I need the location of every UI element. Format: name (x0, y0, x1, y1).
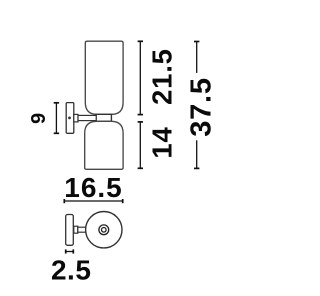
wall mount plate (top view) (66, 215, 74, 246)
inner ring outer (99, 225, 109, 235)
upper diffuser shade (85, 41, 123, 114)
svg-text:16.5: 16.5 (64, 172, 123, 203)
dimension line 37.5 lower segment (194, 140, 199, 168)
svg-text:2.5: 2.5 (51, 255, 91, 286)
shade circle (top view) (86, 212, 122, 248)
dimension line 37.5 upper segment (194, 42, 199, 73)
svg-text:9: 9 (28, 113, 50, 124)
svg-text:14: 14 (147, 126, 178, 158)
dimension line 9 (54, 103, 59, 134)
inner ring inner (102, 228, 107, 233)
arm connector block (top view) (74, 226, 78, 233)
svg-text:37.5: 37.5 (185, 77, 217, 137)
dimension line 2.5 (66, 249, 74, 253)
dimension line 14 segment (138, 122, 143, 168)
dimension line 21.5 segment (138, 41, 143, 114)
arm connector block (side view) (74, 114, 78, 122)
lower diffuser shade (85, 121, 123, 169)
screw dot on plate (68, 117, 71, 120)
wall mount plate (side view) (66, 103, 74, 134)
svg-text:21.5: 21.5 (147, 48, 178, 105)
center junction box (96, 114, 111, 121)
arm tube (top view) (78, 227, 86, 232)
arm tube (side view) (78, 115, 96, 120)
dimension line 16.5 (64, 199, 122, 203)
